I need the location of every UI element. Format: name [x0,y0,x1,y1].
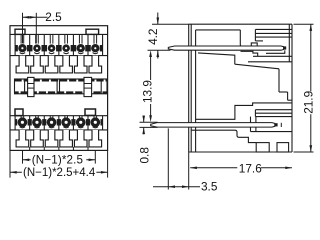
terminal 6 contact ring (cy=122.3) [88,117,103,127]
terminal 4 solder leg [60,56,73,73]
dimension 3.5 [153,128,200,189]
housing inner top line [10,33,108,35]
pin1 tip pocket [266,50,285,53]
svg-text:13.9: 13.9 [141,80,155,103]
strip right cap divider [100,79,102,94]
dimension 21.9 [294,24,314,152]
mounting foot 2 [277,143,289,152]
row2 tab right [85,109,96,115]
dimension 17.6 [189,152,292,172]
terminal 4 solder leg [60,130,73,147]
mating slot strip [15,77,108,96]
terminal 1 contact ring (cy=48.2) [15,44,29,54]
terminal 5 solder leg [74,130,87,147]
inner right wall upper [288,24,290,62]
dimension (N-1)*2.5+4.4 extension lines [10,150,108,177]
step below pin2 [191,130,256,142]
connector body outline [10,26,108,151]
svg-text:(N−1)*2.5+4.4: (N−1)*2.5+4.4 [23,167,96,179]
upper cavity outline [196,29,241,31]
cell walls row2 [15,116,102,130]
stubs between row2 feet [30,147,88,150]
dimension 2.5 arrows [23,16,30,19]
pocket wall after pin2 tip [280,123,282,127]
sloped inner wall [235,64,279,69]
terminal 5 contact ring (cy=48.2) [74,44,88,54]
terminal 6 solder leg [89,130,102,147]
strip dashed top edge [15,79,108,82]
row2 tab left [15,109,23,116]
strip outline [15,79,108,94]
terminal 2 solder leg [31,56,44,73]
svg-text:3.5: 3.5 [201,180,218,194]
terminal 5 solder leg [74,56,87,73]
terminal 6 contact ring (cy=48.2) [88,44,102,54]
dimension (N-1)*2.5 arrows [23,158,30,161]
pin 1 (upper contact blade) [168,46,283,50]
terminal 6 solder leg [89,56,102,73]
mounting foot 1 [256,143,269,152]
row2 cell top line [10,115,108,117]
strip dashed bottom edge [15,91,108,94]
terminal 1 solder leg [16,56,29,73]
terminal 3 contact ring (cy=48.2) [44,44,58,53]
body left wall lines [188,24,190,152]
dimension 2.5 line [23,16,48,18]
strip left latch [28,77,34,96]
terminal 4 contact ring (cy=48.2) [59,44,73,53]
line under pin2 [251,131,293,133]
dimension (N-1)*2.5 extension lines [23,150,96,163]
dimension 2.5 extension lines [23,13,48,44]
body right wall [291,24,293,152]
dimension 13.9 [150,57,152,116]
terminal slot lines row2 [21,116,97,119]
dimension (N-1)*2.5+4.4 arrows [10,171,17,174]
strip mid dividers [56,79,58,94]
terminal 2 contact ring (cy=122.3) [30,117,45,127]
pin 2 (lower contact blade) [151,123,275,128]
terminal 2 solder leg [31,130,44,147]
terminal 1 solder leg [16,130,29,147]
body top edge [189,23,293,25]
rear wedge rib lines [255,109,292,111]
svg-text:4.2: 4.2 [146,28,160,44]
sloped cavity floor [198,53,235,64]
terminal 2 contact ring (cy=48.2) [30,44,44,53]
body bottom edge [189,151,293,153]
wedge rib lines [255,28,292,30]
terminal 3 solder leg [45,130,58,147]
ledge under pin1 right [241,51,258,56]
row2 cell bottom line [10,129,108,131]
terminal 3 solder leg [45,56,58,73]
cell walls row1 [15,34,102,55]
svg-text:0.8: 0.8 [137,147,151,164]
svg-text:17.6: 17.6 [239,162,262,176]
terminal 1 contact ring (cy=122.3) [15,117,30,127]
dimension 4.2 [148,13,189,59]
row1 cell bottom line [10,55,108,57]
terminal 5 contact ring (cy=122.3) [73,117,88,127]
terminal 3 contact ring (cy=122.3) [44,117,59,127]
polarization tab top-right [86,29,99,34]
rear cavity staircase [196,103,292,119]
strip left cap divider [24,79,26,94]
pin 1 dark tip [283,46,286,49]
terminal 4 contact ring (cy=122.3) [59,117,74,127]
svg-text:2.5: 2.5 [45,10,62,24]
svg-text:(N−1)*2.5: (N−1)*2.5 [32,153,83,166]
svg-text:21.9: 21.9 [301,91,315,114]
terminal slot lines row1 [21,34,97,43]
pin 2 dark tip [275,123,278,126]
rear contact flank walls [250,117,252,132]
strip right latch [84,77,92,96]
polarization tab top-left [15,29,25,34]
dimension 0.8 [140,116,158,135]
